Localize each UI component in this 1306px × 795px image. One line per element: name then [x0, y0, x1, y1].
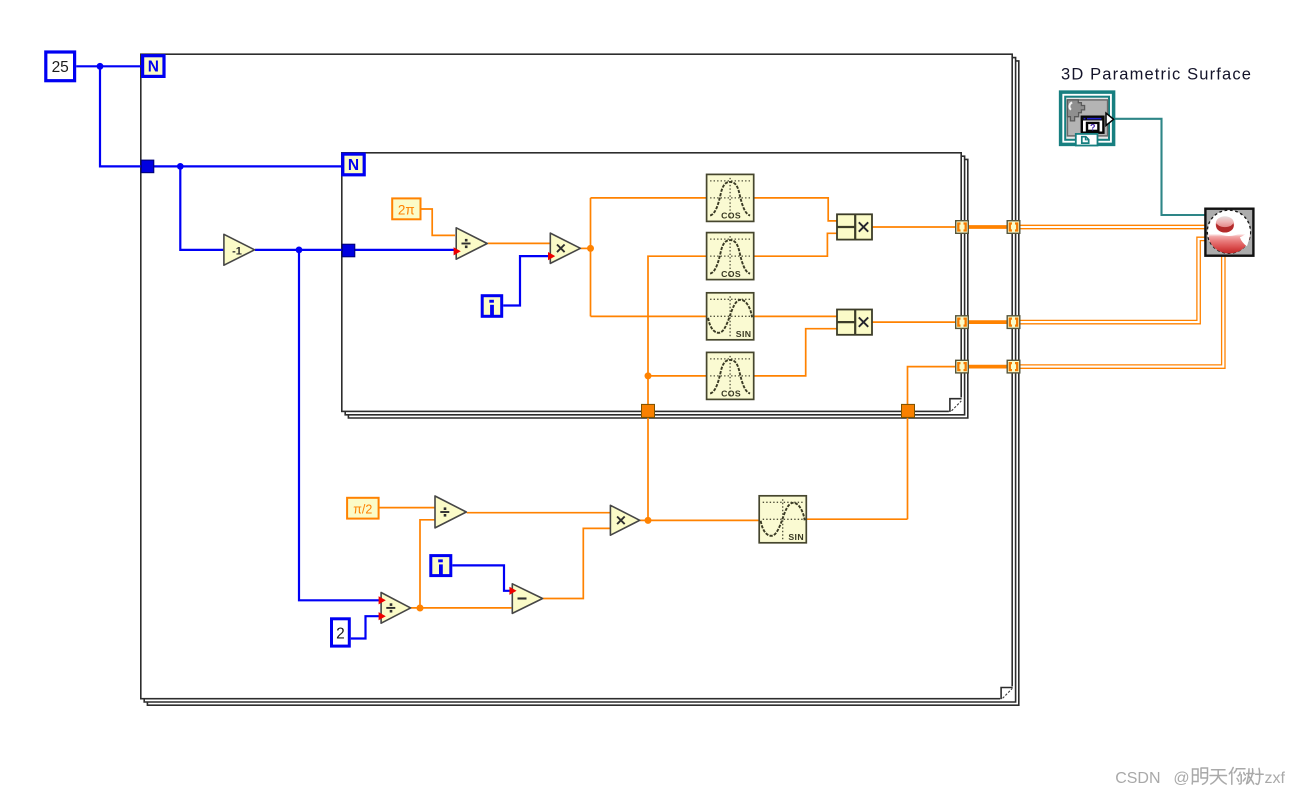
svg-text:25: 25: [52, 59, 69, 76]
svg-text:CSDN: CSDN: [1115, 770, 1160, 787]
svg-text:2π: 2π: [398, 202, 415, 217]
svg-text:2: 2: [336, 625, 345, 642]
svg-text:-1: -1: [232, 246, 242, 258]
svg-text:N: N: [148, 59, 159, 76]
svg-text:@: @: [1173, 770, 1189, 787]
svg-text:3D Parametric Surface: 3D Parametric Surface: [1061, 66, 1252, 84]
svg-text:?: ?: [1090, 123, 1096, 133]
svg-text:π/2: π/2: [353, 502, 372, 516]
svg-text:N: N: [348, 157, 359, 174]
svg-text:zxf: zxf: [1265, 770, 1286, 787]
